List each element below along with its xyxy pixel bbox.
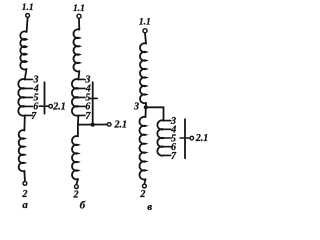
svg-text:2: 2 [73, 189, 79, 200]
inductor upper winding (variant v) [140, 43, 146, 103]
wire to terminal 2.1 (variant b) [78, 124, 107, 126]
svg-text:2: 2 [139, 189, 145, 200]
wire from terminal 1.1 down (variant b) [78, 19, 80, 30]
terminal 2 circle (variant v) [143, 184, 147, 188]
wire to terminal 2 (variant b) [77, 179, 78, 184]
wire between upper winding and tapped section (variant a) [25, 69, 27, 79]
wire to junction node 3 (variant v) [145, 103, 147, 107]
terminal 1.1 circle (variant v) [143, 29, 147, 33]
wiper cross wire to terminal 2.1 (variant a) [39, 105, 48, 107]
tap 4 tick (variant v) [164, 128, 171, 130]
selector bar (variant b) [92, 82, 94, 124]
tap 3 tick (variant b) [78, 78, 85, 80]
tap 7 tick (variant v) [164, 154, 171, 156]
wiper cross at tap 5 (variant b) [90, 97, 97, 99]
wire from node 3 to branch (variant v) [146, 107, 164, 120]
inductor tapped section windings (variant a) [18, 79, 24, 116]
inductor lower winding (variant a) [19, 130, 25, 171]
tap 7 tick (variant a) [25, 114, 33, 116]
inductor tapped section windings (variant b) [72, 79, 78, 116]
tap 7 tick (variant b) [78, 114, 85, 116]
wire from tap 7 to bottom junction (variant b) [77, 115, 80, 124]
terminal 1.1 circle (variant b) [77, 14, 81, 18]
inductor L1 upper winding (variant a) [20, 31, 26, 69]
svg-text:а: а [22, 199, 28, 211]
junction dot (variant b) [91, 123, 95, 127]
svg-text:1.1: 1.1 [22, 3, 34, 13]
node 3 junction dot (variant v) [144, 105, 148, 109]
svg-text:2.1: 2.1 [114, 120, 128, 131]
wire from terminal 1.1 down (variant a) [27, 18, 28, 32]
selector bar (variant a) [44, 82, 46, 113]
tap 6 tick (variant b) [78, 105, 85, 107]
terminal 2.1 circle (variant v) [190, 136, 194, 140]
tap 5 tick (variant a) [25, 96, 33, 98]
svg-text:3: 3 [133, 102, 139, 113]
inductor lower winding (variant b) [72, 136, 78, 179]
tap 3 tick (variant v) [164, 120, 171, 122]
svg-text:1.1: 1.1 [73, 4, 85, 14]
inductor lower winding (variant v) [140, 117, 146, 180]
branch tapped windings (variant v) [157, 120, 163, 155]
wire between upper winding and tapped section (variant b) [77, 71, 80, 79]
tap 6 tick (variant v) [164, 146, 171, 148]
wire from junction down (variant b) [77, 125, 79, 137]
tap 4 tick (variant b) [78, 87, 85, 89]
svg-text:2.1: 2.1 [52, 101, 66, 112]
terminal 1.1 circle (variant a) [26, 14, 30, 18]
terminal 2 circle (variant a) [23, 182, 27, 186]
tap 4 tick (variant a) [25, 87, 33, 89]
wire from terminal 1.1 down (variant v) [145, 33, 146, 43]
terminal 2.1 circle (variant a) [49, 104, 53, 108]
svg-text:2.1: 2.1 [195, 133, 209, 144]
tap 5 tick (variant b) [78, 96, 85, 98]
svg-text:в: в [147, 201, 152, 213]
wire to terminal 2 (variant a) [23, 171, 26, 181]
selector bar (variant v) [184, 119, 186, 158]
wiper cross wire to terminal 2.1 (variant v) [180, 137, 189, 139]
svg-text:1.1: 1.1 [139, 18, 151, 28]
terminal 2 circle (variant b) [75, 185, 79, 189]
terminal 2.1 circle (variant b) [107, 123, 111, 127]
wire from tap 7 down (variant a) [23, 115, 25, 130]
tap 5 tick (variant v) [164, 137, 171, 139]
inductor upper winding (variant b) [73, 29, 79, 71]
svg-text:б: б [80, 200, 86, 212]
wire from node 3 down (variant v) [145, 107, 147, 117]
tap 6 tick (variant a) [25, 105, 33, 107]
wire to terminal 2 (variant v) [144, 179, 145, 183]
tap 3 tick (variant a) [25, 78, 33, 80]
